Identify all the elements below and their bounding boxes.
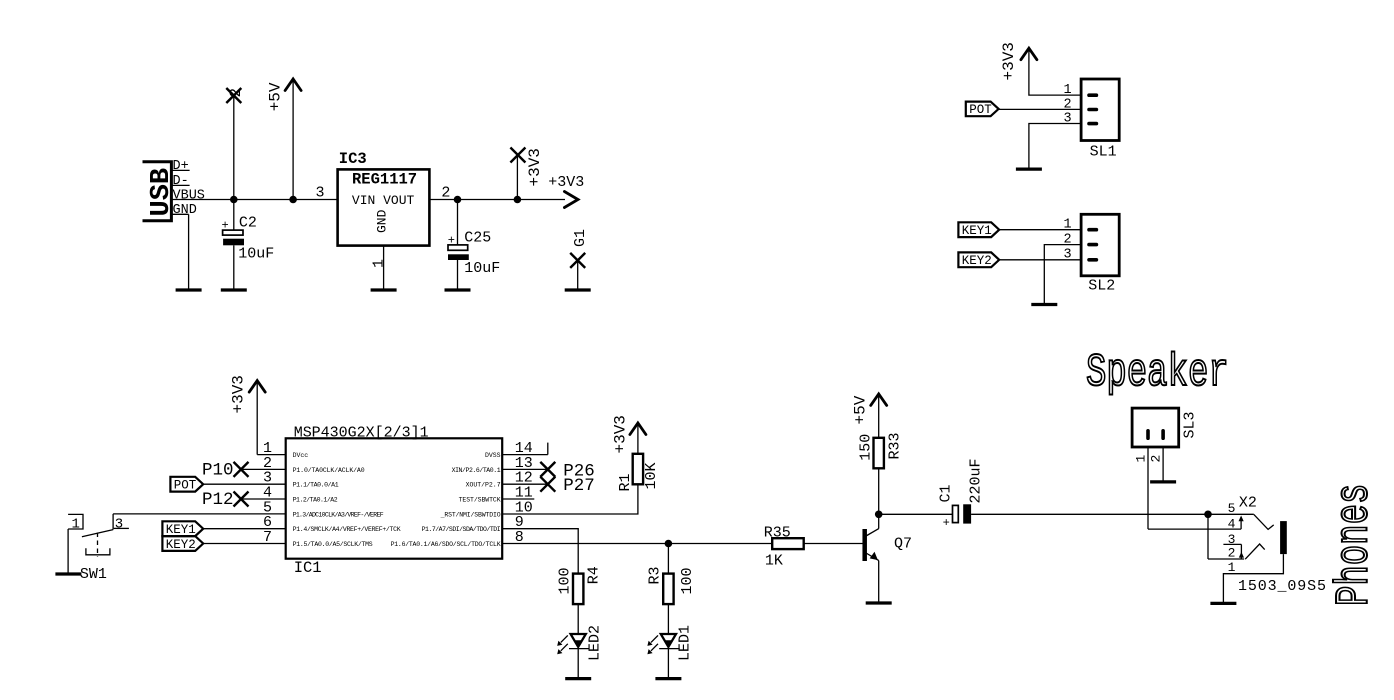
wire +3V3 rail right of IC3 xyxy=(429,199,565,201)
switch SW1 pin1 graphic xyxy=(68,514,83,574)
ground C2 xyxy=(221,288,247,291)
power arrow +3V3 R1 xyxy=(630,423,646,435)
SL2 pin contact 3 xyxy=(1087,258,1098,262)
svg-text:P1.7/A7/SDI/SDA/TDO/TDI: P1.7/A7/SDI/SDA/TDO/TDI xyxy=(422,526,501,533)
no-connect cross G1 xyxy=(570,253,585,268)
wire IC1 pin4 stub xyxy=(241,498,286,500)
svg-text:1K: 1K xyxy=(765,553,783,570)
svg-text:KEY1: KEY1 xyxy=(166,523,196,537)
resistor R3 xyxy=(663,574,673,605)
ground SL3 xyxy=(1150,480,1176,483)
wire R33 down to junction xyxy=(878,468,880,514)
svg-text:R4: R4 xyxy=(586,566,603,584)
svg-text:P1.4/SMCLK/A4/VREF+/VEREF+/TCK: P1.4/SMCLK/A4/VREF+/VEREF+/TCK xyxy=(293,526,401,533)
svg-text:+5V: +5V xyxy=(851,395,869,424)
wire R3 to LED1 xyxy=(667,604,669,633)
wire +3V3 stub xyxy=(516,155,518,200)
voltage regulator IC3 box xyxy=(338,169,430,245)
svg-text:XOUT/P2.7: XOUT/P2.7 xyxy=(466,482,501,489)
svg-text:P1.6/TA0.1/A6/SDO/SCL/TDO/TCLK: P1.6/TA0.1/A6/SDO/SCL/TDO/TCLK xyxy=(391,541,501,548)
svg-text:P10: P10 xyxy=(202,460,234,480)
resistor R1 xyxy=(633,454,643,485)
svg-text:P1.1/TA0.0/A1: P1.1/TA0.0/A1 xyxy=(293,482,339,489)
no-connect cross P27 xyxy=(540,477,555,492)
svg-text:2: 2 xyxy=(1228,546,1236,561)
wire junction down to R3 xyxy=(667,544,669,574)
junction Q7 collector xyxy=(875,511,883,519)
wire USB GND down xyxy=(188,214,190,290)
no-connect cross P26 xyxy=(540,462,555,477)
svg-text:POT: POT xyxy=(969,103,992,117)
wire C1 to X2 xyxy=(971,513,1208,515)
power arrow +3V3 IC1 xyxy=(249,381,265,393)
wire collector to C1 xyxy=(879,513,953,515)
ground C25 xyxy=(445,288,471,291)
wire IC1 pin3 to POT xyxy=(203,483,286,485)
svg-text:_RST/NMI/SBWTDIO: _RST/NMI/SBWTDIO xyxy=(440,511,501,518)
X2 sleeve bar xyxy=(1280,521,1287,554)
svg-text:R33: R33 xyxy=(887,432,904,459)
wire IC1 pin12 stub xyxy=(502,483,548,485)
svg-text:220uF: 220uF xyxy=(967,458,984,503)
svg-text:C1: C1 xyxy=(937,484,954,502)
svg-text:1: 1 xyxy=(1134,455,1149,463)
svg-text:100: 100 xyxy=(557,567,574,594)
svg-text:+3V3: +3V3 xyxy=(526,148,544,186)
microcontroller IC1 box xyxy=(286,438,503,558)
svg-text:DVcc: DVcc xyxy=(293,452,309,459)
svg-text:P12: P12 xyxy=(202,490,234,510)
junction on rail at +3V3 stub xyxy=(514,196,522,204)
X2 pin 2 xyxy=(1208,514,1244,560)
svg-text:3: 3 xyxy=(316,185,325,202)
net flag KEY2 IC1 xyxy=(162,536,203,552)
svg-text:SW1: SW1 xyxy=(80,566,107,583)
ground X2 xyxy=(1210,602,1236,605)
svg-text:P1.5/TA0.0/A5/SCLK/TMS: P1.5/TA0.0/A5/SCLK/TMS xyxy=(293,541,373,548)
wire IC1 pin5 to SW1 xyxy=(113,513,286,515)
wire +3V3 riser IC1 xyxy=(256,382,258,455)
svg-text:4: 4 xyxy=(1228,517,1236,532)
X2 pin 5 xyxy=(1208,501,1274,529)
wire IC1 pin10 to R1 xyxy=(502,484,638,514)
svg-text:+3V3: +3V3 xyxy=(230,375,248,413)
svg-text:Q7: Q7 xyxy=(894,536,912,553)
wire IC1 pin1 stub xyxy=(257,454,286,456)
switch SW1 actuator bracket xyxy=(86,548,110,555)
connector USB xyxy=(143,162,177,221)
transistor Q7 xyxy=(865,529,879,561)
wire stub net 2 xyxy=(233,96,235,200)
wire SL1 pin1 to +3V3 xyxy=(1029,50,1081,96)
SL1 pin contact 2 xyxy=(1087,108,1098,112)
net flag KEY1 IC1 xyxy=(162,521,203,537)
no-connect cross net 2 xyxy=(226,88,241,103)
svg-text:R35: R35 xyxy=(764,525,791,542)
wire IC1 pin9 down to R4 xyxy=(502,529,578,574)
svg-text:P1.0/TA0CLK/ACLK/A0: P1.0/TA0CLK/ACLK/A0 xyxy=(293,467,365,474)
svg-text:R1: R1 xyxy=(617,473,634,491)
no-connect cross +3V3 stub xyxy=(510,148,525,163)
wire Q7 emitter to ground xyxy=(878,561,880,603)
SL3 pin contact 1 xyxy=(1146,429,1150,440)
power arrow +5V xyxy=(285,79,301,91)
net flag KEY2 SL2 xyxy=(958,252,999,268)
LED LED2 xyxy=(557,634,589,655)
ground USB xyxy=(176,288,202,291)
svg-text:D+: D+ xyxy=(173,159,189,174)
switch SW1 pin3 graphic xyxy=(113,514,129,532)
svg-text:R3: R3 xyxy=(647,566,664,584)
IC3 pin 1 wire xyxy=(383,246,385,290)
ground G1 xyxy=(565,288,591,291)
wire VBUS rail left xyxy=(171,199,337,201)
net flag POT IC1 xyxy=(170,477,203,493)
svg-text:DVSS: DVSS xyxy=(485,452,501,459)
svg-text:10K: 10K xyxy=(643,462,660,489)
junction pin8 R3 xyxy=(665,540,673,548)
connector SL1 box xyxy=(1081,79,1119,141)
svg-text:KEY2: KEY2 xyxy=(962,254,992,268)
svg-text:3: 3 xyxy=(115,516,123,532)
svg-text:P1.3/ADC10CLK/A3/VREF-/VEREF: P1.3/ADC10CLK/A3/VREF-/VEREF xyxy=(293,511,384,518)
svg-text:3: 3 xyxy=(1064,112,1072,127)
wire R33 to +5V xyxy=(878,395,880,437)
svg-text:1: 1 xyxy=(1228,560,1236,575)
svg-text:2: 2 xyxy=(227,88,245,98)
net arrow +3V3 xyxy=(564,192,578,208)
no-connect cross P12 xyxy=(234,492,249,507)
svg-text:1: 1 xyxy=(72,516,80,532)
net flag KEY1 SL2 xyxy=(958,222,999,238)
resistor R33 xyxy=(874,438,884,469)
svg-text:XIN/P2.6/TA0.1: XIN/P2.6/TA0.1 xyxy=(452,467,501,474)
ground SL2 xyxy=(1031,303,1057,306)
ground LED1 xyxy=(655,677,681,680)
junction on rail at C2 xyxy=(230,196,238,204)
no-connect cross P10 xyxy=(234,462,249,477)
wire R1 to +3V3 xyxy=(637,425,639,454)
wire IC1 pin14 stub xyxy=(502,443,548,455)
svg-text:150: 150 xyxy=(858,434,875,461)
wire R35 to Q7 base xyxy=(804,543,863,545)
wire +5V riser xyxy=(292,80,294,200)
wire IC1 pin2 stub xyxy=(241,468,286,470)
resistor R4 xyxy=(573,574,583,605)
wire SL3 pin1 down xyxy=(1147,447,1149,529)
SL3 pin contact 2 xyxy=(1161,429,1165,440)
X2 pin 3 xyxy=(1223,532,1264,559)
svg-text:+3V3: +3V3 xyxy=(1000,42,1018,80)
svg-text:GND: GND xyxy=(375,209,390,233)
svg-text:LED2: LED2 xyxy=(587,625,604,661)
junction on rail at C25 xyxy=(454,196,462,204)
svg-text:P1.2/TA0.1/A2: P1.2/TA0.1/A2 xyxy=(293,496,338,503)
svg-text:+: + xyxy=(943,516,950,530)
ground LED2 xyxy=(565,677,591,680)
svg-text:TEST/SBWTCK: TEST/SBWTCK xyxy=(459,496,501,503)
svg-text:IC3: IC3 xyxy=(339,150,367,168)
ground SL1 xyxy=(1016,168,1042,171)
wire SL2 pin2 to ground xyxy=(1044,245,1081,305)
wire IC1 pin13 stub xyxy=(502,468,548,470)
svg-text:10uF: 10uF xyxy=(464,260,500,277)
wire KEY1 to SL2 pin1 xyxy=(999,229,1081,231)
svg-text:IC1: IC1 xyxy=(294,559,322,577)
svg-text:SL3: SL3 xyxy=(1181,411,1198,438)
switch SW1 plunger dashed xyxy=(97,533,99,558)
wire KEY2 to SL2 pin3 xyxy=(999,259,1081,261)
svg-text:5: 5 xyxy=(1228,501,1236,516)
wire LED1 to ground xyxy=(667,648,669,678)
connector SL2 box xyxy=(1081,214,1119,275)
junction on rail at +5V xyxy=(289,196,297,204)
svg-text:C25: C25 xyxy=(464,230,491,247)
X2 pin 4 xyxy=(1148,516,1244,532)
USB pin D+ xyxy=(171,159,189,174)
svg-text:REG1117: REG1117 xyxy=(352,171,417,189)
wire LED2 to ground xyxy=(577,648,579,678)
capacitor C1 xyxy=(937,458,984,530)
junction X2 pin5 xyxy=(1204,511,1212,519)
svg-text:+3V3: +3V3 xyxy=(548,174,584,191)
wire IC1 pin7 to KEY2 xyxy=(203,543,286,545)
svg-text:1: 1 xyxy=(371,259,388,268)
svg-text:X2: X2 xyxy=(1239,495,1257,512)
wire IC1 pin6 to KEY1 xyxy=(203,528,286,530)
svg-text:SL1: SL1 xyxy=(1090,144,1117,161)
svg-text:C2: C2 xyxy=(239,215,257,232)
USB pin D- xyxy=(171,174,189,189)
svg-text:VBUS: VBUS xyxy=(173,189,205,204)
SL1 pin contact 1 xyxy=(1087,93,1098,97)
svg-text:+5V: +5V xyxy=(266,82,284,111)
X2 pin 1 xyxy=(1223,554,1283,603)
USB pin GND xyxy=(171,203,196,218)
svg-text:2: 2 xyxy=(1149,455,1164,463)
svg-text:+3V3: +3V3 xyxy=(611,415,629,453)
capacitor C25 xyxy=(448,200,501,291)
svg-text:KEY1: KEY1 xyxy=(962,224,992,238)
svg-text:POT: POT xyxy=(174,479,197,493)
wire Q7 collector xyxy=(878,514,880,528)
net flag POT xyxy=(966,102,999,118)
svg-text:KEY2: KEY2 xyxy=(166,538,196,552)
wire SL1 pin2 to POT xyxy=(999,108,1082,110)
resistor R35 xyxy=(772,538,804,549)
SL1 pin contact 3 xyxy=(1087,122,1098,126)
wire IC1 pin8 to R35 xyxy=(502,543,772,545)
svg-text:LED1: LED1 xyxy=(677,625,694,661)
svg-text:1503_09S5: 1503_09S5 xyxy=(1238,578,1326,595)
svg-text:VIN VOUT: VIN VOUT xyxy=(352,193,415,208)
ground IC3 xyxy=(371,288,397,291)
ground Q7 xyxy=(866,601,892,604)
wire SL3 pin2 to ground xyxy=(1162,447,1164,482)
svg-text:10uF: 10uF xyxy=(238,245,274,262)
wire SL1 pin3 to ground xyxy=(1029,124,1081,170)
svg-text:P27: P27 xyxy=(563,476,595,496)
power arrow +3V3 SL1 xyxy=(1021,48,1037,60)
svg-text:2: 2 xyxy=(441,185,450,202)
svg-text:D-: D- xyxy=(173,174,189,189)
svg-text:Phones: Phones xyxy=(1329,484,1381,606)
power arrow +5V R33 xyxy=(871,394,887,406)
svg-text:SL2: SL2 xyxy=(1088,278,1115,295)
ground SW1 xyxy=(55,572,81,575)
capacitor C2 xyxy=(222,200,275,291)
svg-text:G1: G1 xyxy=(572,229,589,247)
connector SL3 box xyxy=(1132,408,1179,447)
SL2 pin contact 1 xyxy=(1087,228,1098,232)
wire IC1 pin11 stub xyxy=(502,498,534,500)
switch SW1 lever xyxy=(82,530,113,537)
net stub G1 xyxy=(577,260,579,290)
wire R4 to LED2 xyxy=(577,604,579,633)
LED LED1 xyxy=(647,634,679,655)
svg-text:GND: GND xyxy=(173,203,197,218)
svg-text:100: 100 xyxy=(679,567,696,594)
SL2 pin contact 2 xyxy=(1087,243,1098,247)
svg-text:Speaker: Speaker xyxy=(1086,347,1229,399)
